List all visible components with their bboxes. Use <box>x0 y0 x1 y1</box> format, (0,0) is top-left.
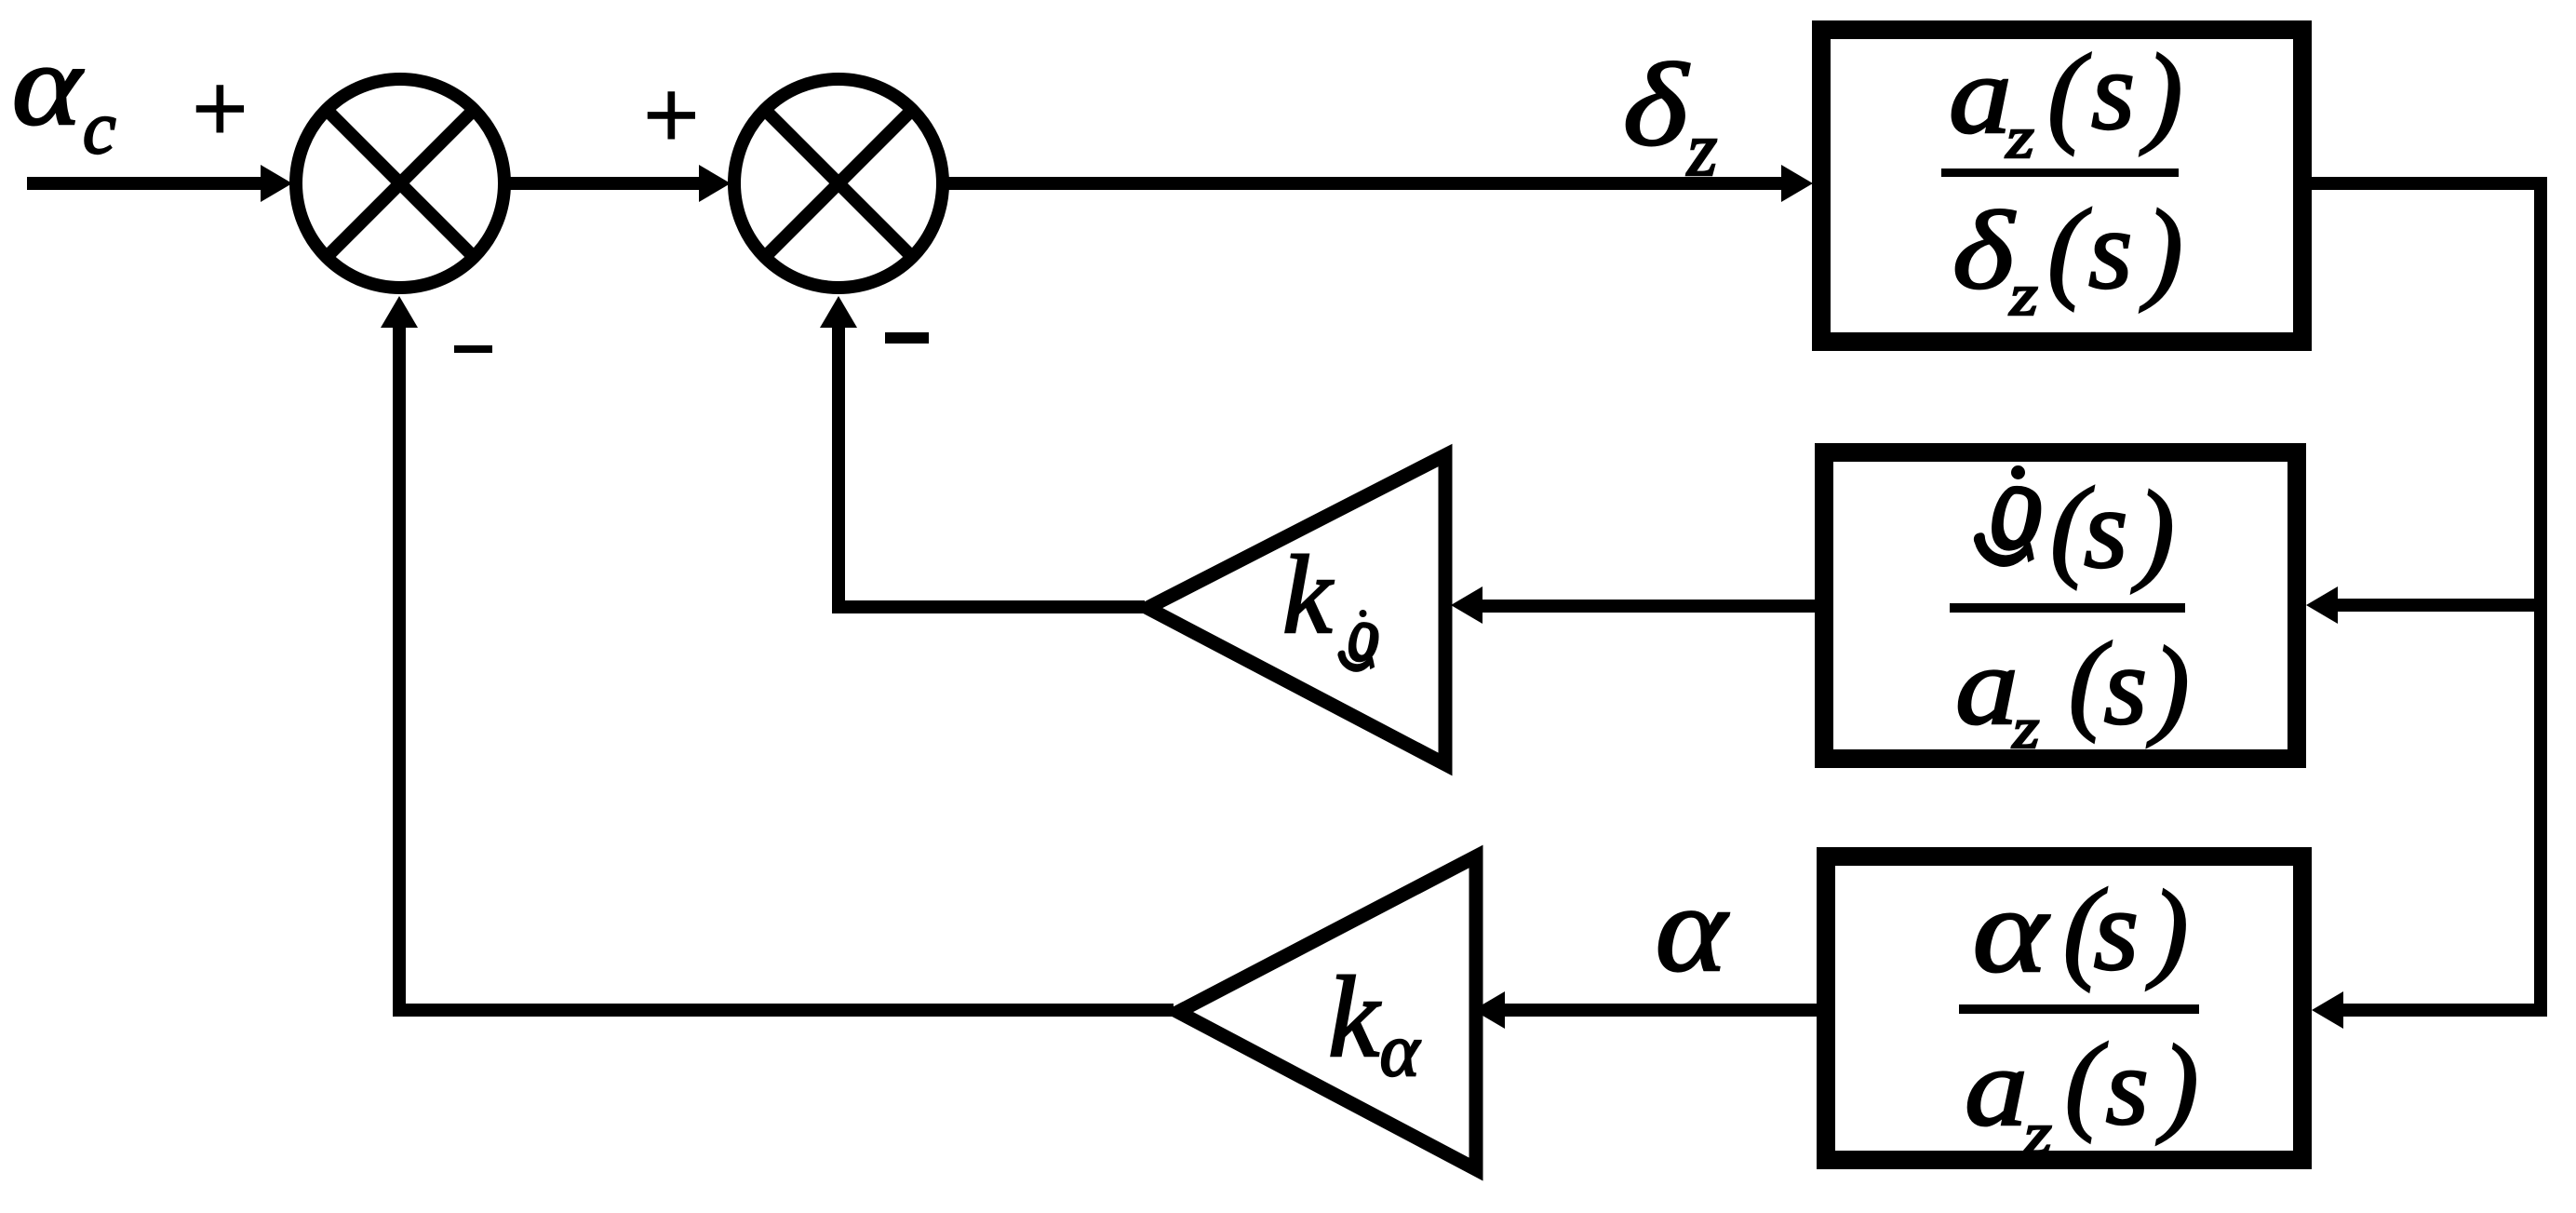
summing junction S1 (circle with X cross) <box>296 79 504 288</box>
wire: S2 to plant block B1, labelled delta_z <box>948 177 1783 190</box>
arrowhead into S2 <box>699 165 731 202</box>
wire: S1 to S2 <box>510 177 701 190</box>
wire: T1 output left then up into S2 (negative input) <box>839 328 1145 607</box>
svg-text:(: ( <box>2047 186 2091 312</box>
svg-text:s: s <box>2091 29 2135 154</box>
svg-text:k: k <box>1282 532 1335 656</box>
label k_thetadot inside T1 <box>1282 532 1377 671</box>
svg-text:): ) <box>2146 868 2189 991</box>
svg-text:z: z <box>2023 1101 2052 1167</box>
block B1: a_z(s)/delta_z(s) plant <box>1821 30 2302 342</box>
svg-text:(: ( <box>2065 1020 2108 1143</box>
block B3: alpha(s)/a_z(s) <box>1826 856 2302 1160</box>
wire: B2 to gain triangle T1 <box>1483 600 1815 613</box>
svg-text:): ) <box>2156 1022 2199 1145</box>
svg-text:z: z <box>2012 697 2040 761</box>
arrowhead into S1 <box>261 165 292 202</box>
svg-text:+: + <box>637 61 704 169</box>
svg-text:z: z <box>1686 106 1717 192</box>
fraction bar in B3 <box>1959 1004 2199 1014</box>
svg-text:s: s <box>2088 187 2132 313</box>
B3 denominator a_z(s) <box>1965 1020 2198 1166</box>
label alpha_c (input) <box>12 20 116 169</box>
arrowhead into B1 <box>1781 165 1813 202</box>
svg-text:α: α <box>1380 1008 1421 1092</box>
B1 denominator delta_z(s) <box>1952 186 2183 328</box>
arrowhead into T2 right edge <box>1473 991 1505 1029</box>
gain triangle T2: k_alpha <box>1178 856 1476 1169</box>
label delta_z on wire into B1 <box>1623 40 1718 192</box>
wire: T2 output left then up into S1 (negative input) <box>399 328 1174 1010</box>
svg-text:a: a <box>1955 624 2019 748</box>
arrowhead into T1 right edge <box>1451 586 1483 624</box>
fraction bar in B1 <box>1941 168 2179 177</box>
svg-text:(: ( <box>2047 32 2091 156</box>
svg-text:): ) <box>2140 32 2182 156</box>
svg-text:s: s <box>2104 624 2148 748</box>
label k_alpha inside T2 <box>1328 953 1421 1092</box>
svg-text:α: α <box>1972 863 2049 997</box>
arrowhead into B3 (feedback) <box>2312 991 2343 1029</box>
svg-text:): ) <box>2140 187 2183 313</box>
svg-text:): ) <box>2131 468 2175 594</box>
svg-text:α: α <box>12 20 84 150</box>
svg-text:a: a <box>1965 1025 2028 1149</box>
svg-text:z: z <box>2009 263 2038 329</box>
B2 denominator a_z(s) <box>1955 619 2190 761</box>
svg-text:c: c <box>83 88 116 169</box>
svg-text:+: + <box>186 54 252 163</box>
svg-text:δ: δ <box>1952 189 2016 313</box>
svg-text:z: z <box>2006 105 2034 171</box>
B1 numerator a_z(s) <box>1949 29 2182 170</box>
svg-text:s: s <box>2094 867 2140 995</box>
arrowhead up into S2 bottom <box>820 296 857 328</box>
wire: bus branch into middle block B2 <box>2338 599 2541 612</box>
B3 numerator alpha(s) <box>1972 863 2188 997</box>
svg-text:δ: δ <box>1623 40 1690 171</box>
minus sign at S1 <box>454 345 492 353</box>
svg-text:s: s <box>2084 466 2127 592</box>
minus sign at S2 <box>885 332 929 344</box>
B2 numerator thetadot(s) <box>1975 465 2175 594</box>
svg-text:α: α <box>1656 860 1730 997</box>
arrowhead into B2 (feedback) <box>2306 586 2338 624</box>
svg-text:a: a <box>1949 33 2012 156</box>
wire: B3 to gain triangle T2 <box>1505 1004 1817 1017</box>
gain triangle T1: k_thetadot <box>1147 455 1445 764</box>
summing junction S2 (circle with X cross) <box>734 79 943 288</box>
block B2: thetadot(s)/a_z(s) <box>1824 452 2297 759</box>
svg-text:s: s <box>2106 1025 2149 1148</box>
fraction bar in B2 <box>1950 603 2185 613</box>
wire: input alpha_c into summing junction S1 <box>27 177 262 190</box>
svg-text:): ) <box>2147 624 2190 748</box>
arrowhead up into S1 bottom <box>381 296 418 328</box>
wire: B1 output right, down the feedback bus, into B3 <box>2312 183 2541 1010</box>
svg-text:k: k <box>1328 953 1381 1081</box>
